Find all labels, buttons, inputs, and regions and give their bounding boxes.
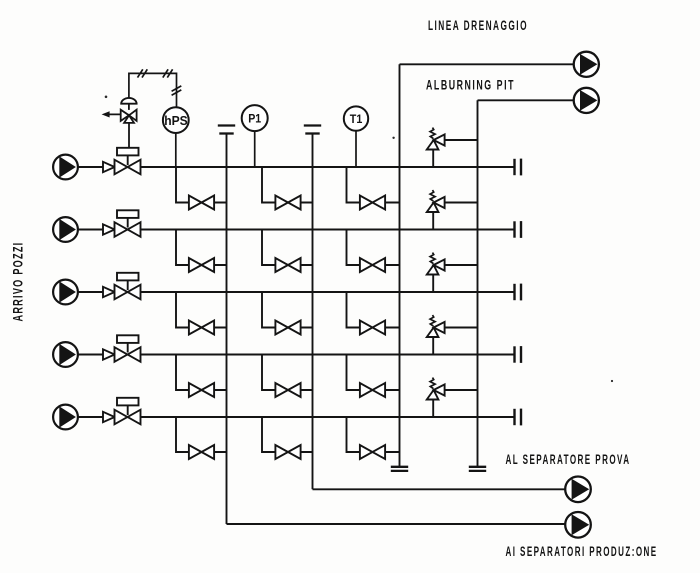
actuator box of wing valve row 5 — [117, 398, 139, 406]
end cap flange row 1 — [513, 159, 515, 175]
branch valve row 1 header 3 — [360, 196, 385, 210]
three-way valve body — [121, 110, 129, 121]
pipe: linea drenaggio horizontal — [400, 63, 574, 65]
branch valve row 4 header 3 — [360, 383, 385, 397]
dome stem — [128, 104, 130, 110]
svg-text:P1: P1 — [248, 114, 262, 126]
relief valve PSV2 — [427, 190, 445, 212]
pipe: to test separator — [313, 488, 566, 490]
branch valve row 1 header 1 — [189, 196, 214, 210]
branch pipe row 1 to header 3 — [347, 167, 400, 203]
branch pipe row 4 to header 3 — [347, 355, 400, 391]
pipe: well flowline row 4 — [78, 354, 515, 356]
svg-text:LINEA DRENAGGIO: LINEA DRENAGGIO — [428, 18, 528, 34]
stem row 2 — [127, 218, 129, 228]
svg-text:ARRIVO POZZI: ARRIVO POZZI — [11, 242, 27, 322]
check valve row 3 — [103, 287, 115, 297]
stem row 1 — [127, 155, 129, 165]
relief valve inlet pipe row 3 — [432, 275, 434, 293]
branch pipe row 2 to header 1 — [176, 230, 227, 266]
header top blind (double bar) — [304, 124, 321, 126]
branch pipe row 5 to header 1 — [176, 417, 227, 452]
header bottom blind (double bar) — [469, 466, 486, 468]
branch valve row 4 header 1 — [189, 383, 214, 397]
pneumatic signal line from actuator to hPS — [129, 73, 177, 107]
check valve row 5 — [103, 412, 115, 422]
well inlet arrow W3 — [53, 280, 78, 305]
branch valve row 5 header 2 — [275, 445, 300, 459]
relief valve inlet pipe row 2 — [432, 212, 434, 230]
instrument drop line P1 — [254, 131, 256, 167]
svg-text:AI SEPARATORI PRODUZ:ONE: AI SEPARATORI PRODUZ:ONE — [506, 544, 658, 560]
header H2 vertical (to test separator) — [312, 134, 314, 490]
relief valve outlet pipe row 1 — [445, 139, 478, 141]
pipe: well flowline row 2 — [78, 229, 515, 231]
header H3 vertical (drain line) — [399, 64, 401, 467]
signal hash marks 1 — [138, 69, 143, 77]
header bottom blind (double bar) — [391, 466, 408, 468]
branch valve row 3 header 3 — [360, 321, 385, 335]
relief valve outlet pipe row 5 — [445, 389, 478, 391]
header top blind (double bar) — [218, 124, 235, 126]
branch pipe row 5 to header 2 — [262, 417, 313, 452]
branch pipe row 1 to header 2 — [262, 167, 313, 203]
branch pipe row 3 to header 3 — [347, 292, 400, 328]
wing valve (gate) row 4 — [115, 347, 141, 362]
relief valve PSV5 — [427, 378, 445, 400]
end cap flange row 2 — [513, 221, 515, 237]
speck — [105, 96, 108, 99]
branch valve row 5 header 3 — [360, 445, 385, 459]
check valve row 4 — [103, 349, 115, 359]
vent arrow (to atmosphere) — [105, 113, 122, 115]
branch valve row 5 header 1 — [189, 445, 214, 459]
end cap flange row 3 — [513, 284, 515, 300]
header H4 vertical (burning pit) — [477, 100, 479, 467]
branch valve row 3 header 2 — [275, 321, 300, 335]
well inlet arrow W1 — [53, 155, 78, 180]
relief valve outlet pipe row 2 — [445, 202, 478, 204]
branch valve row 3 header 1 — [189, 321, 214, 335]
branch pipe row 4 to header 1 — [176, 355, 227, 391]
actuator box of wing valve row 1 — [117, 148, 139, 156]
instrument T1 — [344, 106, 368, 130]
end cap flange row 4 — [513, 346, 515, 362]
flow arrow to burning pit — [574, 88, 599, 113]
relief valve inlet pipe row 1 — [432, 150, 434, 168]
svg-text:T1: T1 — [350, 114, 363, 126]
stem row 5 — [127, 405, 129, 415]
well inlet arrow W5 — [53, 405, 78, 430]
stem from 3-way valve to wing valve actuator — [128, 123, 130, 148]
branch pipe row 3 to header 1 — [176, 292, 227, 328]
header H1 vertical (to production separators) — [226, 134, 228, 525]
relief valve outlet pipe row 4 — [445, 327, 478, 329]
wing valve (gate) row 3 — [115, 285, 141, 300]
svg-text:hPS: hPS — [164, 114, 188, 128]
branch pipe row 4 to header 2 — [262, 355, 313, 391]
branch pipe row 3 to header 2 — [262, 292, 313, 328]
relief valve outlet pipe row 3 — [445, 264, 478, 266]
wing valve (gate) row 2 — [115, 222, 141, 237]
pipe: alburning pit horizontal — [478, 99, 574, 101]
well inlet arrow W2 — [53, 217, 78, 242]
relief valve inlet pipe row 5 — [432, 400, 434, 418]
pipe: well flowline row 5 — [78, 416, 515, 418]
instrument hPS — [163, 107, 189, 133]
branch valve row 2 header 2 — [275, 258, 300, 272]
flow arrow to test separator — [565, 477, 591, 503]
branch valve row 1 header 2 — [275, 196, 300, 210]
pipe: to production separators — [227, 523, 566, 525]
branch pipe row 2 to header 2 — [262, 230, 313, 266]
stem row 4 — [127, 343, 129, 353]
actuator box of wing valve row 3 — [117, 273, 139, 281]
wing valve (gate) row 1 — [115, 160, 141, 175]
signal hash marks 3 — [172, 90, 182, 95]
actuator box of wing valve row 4 — [117, 335, 139, 343]
flow arrow to drain line — [574, 52, 599, 77]
svg-text:ALBURNING PIT: ALBURNING PIT — [426, 78, 515, 94]
diaphragm actuator dome — [121, 98, 136, 104]
check valve row 1 — [103, 162, 115, 172]
branch pipe row 1 to header 1 — [176, 167, 227, 203]
pipe: well flowline row 1 — [78, 166, 515, 168]
end cap flange row 5 — [513, 409, 515, 425]
branch pipe row 5 to header 3 — [347, 417, 400, 452]
relief valve PSV1 — [427, 128, 445, 150]
relief valve PSV4 — [427, 315, 445, 337]
pipe: well flowline row 3 — [78, 291, 515, 293]
relief valve inlet pipe row 4 — [432, 337, 434, 355]
svg-text:AL SEPARATORE PROVA: AL SEPARATORE PROVA — [506, 452, 631, 468]
signal hash marks 2 — [163, 69, 168, 77]
branch pipe row 2 to header 3 — [347, 230, 400, 266]
relief valve PSV3 — [427, 253, 445, 275]
instrument drop line T1 — [355, 131, 357, 167]
flow arrow to production separators — [565, 512, 591, 538]
instrument P1 — [242, 105, 268, 131]
branch valve row 2 header 3 — [360, 258, 385, 272]
wing valve (gate) row 5 — [115, 410, 141, 425]
check valve row 2 — [103, 224, 115, 234]
branch valve row 2 header 1 — [189, 258, 214, 272]
branch valve row 4 header 2 — [275, 383, 300, 397]
instrument drop line hPS — [175, 133, 177, 167]
well inlet arrow W4 — [53, 342, 78, 367]
actuator box of wing valve row 2 — [117, 210, 139, 218]
stem row 3 — [127, 280, 129, 290]
